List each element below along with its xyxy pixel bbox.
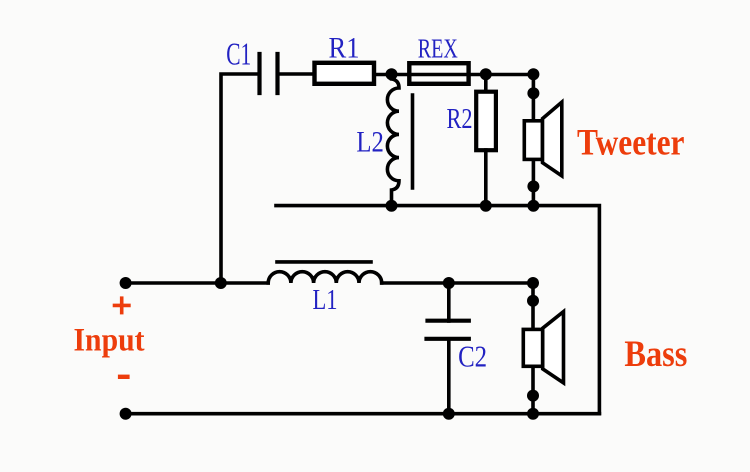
svg-text:REX: REX [418,33,458,64]
bass speaker cone [543,312,564,383]
bass speaker driver [523,329,542,366]
capacitor C1 [260,54,278,93]
junction node tweeter return on mid bus [527,200,539,212]
wire REX node to R2 top [484,74,488,93]
resistor REX [409,63,468,84]
node input plus terminal [120,277,132,289]
wire R2 bottom to mid bus [484,150,488,206]
inductor L1 core bar [277,260,371,264]
junction node bass return on bottom bus [527,408,539,420]
junction node R2 bottom on mid bus [480,200,492,212]
junction node L2 bottom on mid bus [386,200,398,212]
junction node C2 top on lower bus [443,277,455,289]
svg-text:R2: R2 [447,103,473,135]
node input minus terminal [120,408,132,420]
tweeter speaker cone [543,102,562,176]
lower bus wire right of L1 [382,281,534,285]
wire R1 to tweeter branch through REX [373,73,533,77]
label plus sign [113,304,131,308]
label minus sign [118,375,130,379]
inductor L2 [387,74,399,206]
node tweeter upper terminal [527,87,539,99]
svg-text:C2: C2 [458,340,487,374]
inductor L1 [268,272,382,283]
resistor R1 [315,63,375,84]
svg-text:R1: R1 [329,31,360,64]
lower bus wire left of L1 [126,281,269,285]
junction node C1 branch on lower bus [215,277,227,289]
wire bass branch upper [531,283,535,329]
svg-text:C1: C1 [226,36,251,71]
resistor R2 [476,92,496,151]
junction node tweeter top corner [527,68,539,80]
wire C2 bottom plate to bottom bus [447,339,451,414]
wire tweeter branch upper [532,74,536,121]
svg-text:L1: L1 [313,284,338,316]
junction node C2 bottom on bottom bus [443,408,455,420]
wire bass bottom to bottom bus [531,366,535,413]
junction node REX-R2 [480,68,492,80]
wire lower bus to C2 top plate [447,283,451,321]
capacitor C2 [427,321,469,339]
inductor L2 core bar [411,95,415,188]
wire from C1 left plate down to lower bus [221,74,259,283]
tweeter speaker driver [524,121,542,160]
wire C1 to R1 [278,72,316,76]
bottom bus wire [126,412,600,416]
svg-text:L2: L2 [356,126,384,159]
svg-text:Input: Input [74,323,145,359]
junction node R1-REX-L2 [386,68,398,80]
junction node bass top corner [527,277,539,289]
svg-text:Bass: Bass [624,334,687,375]
mid bus wire with right corner down [276,206,599,414]
node bass lower terminal [527,390,539,402]
node bass upper terminal [527,295,539,307]
node tweeter lower terminal [527,180,539,192]
svg-text:Tweeter: Tweeter [577,123,685,164]
wire tweeter bottom to mid bus [532,159,536,206]
